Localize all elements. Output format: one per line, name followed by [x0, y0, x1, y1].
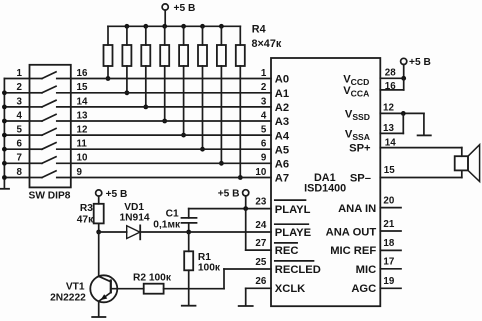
switch element 7 of SW DIP8: [30, 157, 71, 164]
wire: pin 23 row (C1 top node to DA1 PLAYL): [189, 208, 271, 210]
svg-text:100к: 100к: [198, 263, 221, 274]
svg-text:11: 11: [77, 139, 88, 150]
svg-text:A6: A6: [275, 159, 289, 171]
wire: bus row 8 (SW pin 9 to DA1 pin 10): [71, 177, 271, 179]
svg-text:10: 10: [77, 153, 88, 164]
junction dot at +5V / pin 23 node: [243, 206, 248, 211]
svg-text:47к: 47к: [77, 215, 94, 226]
+5V terminal (middle, feeds PLAYL/REC pull-ups): [243, 190, 249, 209]
svg-text:2: 2: [261, 82, 267, 93]
capacitor C1: [182, 218, 197, 232]
svg-text:4: 4: [261, 110, 267, 121]
svg-text:VD1: VD1: [124, 202, 144, 213]
resistor R4.2 (element 2 of 8x47k network R4): [122, 26, 131, 95]
pin label PLAYL with overline (DA1 pin 23): [275, 200, 311, 216]
svg-text:2: 2: [17, 82, 23, 93]
junction dot at VCC node: [401, 76, 406, 81]
svg-text:+5 В: +5 В: [106, 189, 128, 200]
svg-text:12: 12: [77, 125, 88, 136]
junction dots on top bus: [125, 24, 224, 29]
svg-text:A2: A2: [275, 102, 289, 114]
DIP switch SW DIP8 body: [30, 65, 71, 188]
svg-text:23: 23: [255, 196, 266, 207]
svg-text:28: 28: [385, 68, 396, 79]
wire: DA1 pin 28 VCCD to +5V: [380, 77, 403, 79]
resistor R4.8 (element 8 of 8x47k network R4): [236, 26, 245, 180]
wire: bus row 6 (SW pin 11 to DA1 pin 6): [71, 148, 271, 150]
svg-text:16: 16: [77, 68, 88, 79]
svg-text:6: 6: [17, 139, 23, 150]
svg-text:R2 100к: R2 100к: [133, 273, 172, 284]
svg-text:1N914: 1N914: [120, 213, 150, 224]
resistor R4.1 (element 1 of 8x47k network R4): [104, 26, 113, 81]
wire: bus row 7 (SW pin 10 to DA1 pin 9): [71, 162, 271, 164]
wire: DA1 pin 17 stub: [380, 268, 401, 270]
svg-text:A5: A5: [275, 144, 289, 156]
svg-text:ANA OUT: ANA OUT: [326, 226, 377, 238]
switch element 4 of SW DIP8: [30, 114, 71, 121]
wire: bus row 5 (SW pin 12 to DA1 pin 5): [71, 134, 271, 136]
svg-text:10: 10: [255, 167, 266, 178]
svg-text:13: 13: [77, 110, 88, 121]
svg-text:26: 26: [255, 276, 266, 287]
svg-text:A4: A4: [275, 130, 290, 142]
switch element 6 of SW DIP8: [30, 143, 71, 150]
pin label REC with overline (DA1 pin 27): [275, 243, 299, 257]
+5V terminal (top, feeds R4 network): [162, 4, 168, 26]
wire: SW DIP8 left pin 6 lead: [4, 148, 29, 150]
+5V terminal (right, VCC): [401, 58, 407, 78]
wire: DA1 XCLK (pin 26 row) to ground: [246, 288, 271, 305]
svg-text:R1: R1: [198, 252, 211, 263]
transistor VT1 (NPN): [90, 275, 143, 316]
svg-text:A1: A1: [275, 88, 289, 100]
svg-text:17: 17: [383, 257, 394, 268]
wire: top bus of R4 network: [108, 25, 240, 27]
svg-text:1: 1: [17, 68, 23, 79]
speaker (dynamic loudspeaker): [455, 145, 480, 182]
wire: node to VD1 anode: [99, 231, 127, 233]
svg-text:PLAYE: PLAYE: [275, 227, 312, 239]
switch element 8 of SW DIP8: [30, 171, 71, 178]
svg-text:A7: A7: [275, 173, 289, 185]
switch element 2 of SW DIP8: [30, 86, 71, 93]
wire: DA1 pin 21 stub: [380, 230, 401, 232]
svg-text:14: 14: [77, 96, 88, 107]
wire: +5V node down to pin 27 row: [245, 209, 247, 251]
svg-text:25: 25: [255, 257, 266, 268]
resistor R4.3 (element 3 of 8x47k network R4): [141, 26, 150, 109]
svg-text:27: 27: [255, 238, 266, 249]
wire: SW DIP8 left pin 1 lead: [4, 78, 29, 80]
wire: VT1 collector riser: [98, 232, 100, 276]
svg-text:20: 20: [383, 195, 394, 206]
svg-text:13: 13: [383, 123, 394, 134]
ground (VSS): [418, 134, 431, 136]
wire: C1 top lead riser: [188, 209, 190, 218]
wire: DA1 pin 15 SP- to speaker: [380, 170, 462, 177]
switch element 5 of SW DIP8: [30, 129, 71, 136]
diode VD1: [127, 225, 141, 239]
switch element 1 of SW DIP8: [30, 72, 71, 79]
wire: DA1 pin 16 VCCA riser to VCC node: [380, 78, 403, 90]
svg-text:1: 1: [261, 68, 267, 79]
resistor R4.5 (element 5 of 8x47k network R4): [179, 26, 188, 137]
junction dot at R3 / VD1 / VT1 collector node: [96, 230, 101, 235]
wire: DA1 pin 12 VSSD to ground: [380, 113, 424, 134]
svg-text:5: 5: [17, 125, 23, 136]
svg-text:C1: C1: [166, 209, 179, 220]
svg-text:15: 15: [384, 165, 395, 176]
svg-text:6: 6: [261, 139, 267, 150]
resistor R4.4 (element 4 of 8x47k network R4): [160, 26, 169, 123]
svg-text:A3: A3: [275, 116, 289, 128]
svg-text:RECLED: RECLED: [275, 264, 321, 276]
svg-text:15: 15: [77, 82, 88, 93]
wire: DA1 pin 13 VSSA riser to VSS node: [380, 113, 403, 133]
svg-text:R3: R3: [80, 203, 93, 214]
svg-text:0,1мк: 0,1мк: [153, 219, 181, 230]
op IC DA1 ISD1400 body: [271, 58, 380, 306]
svg-text:5: 5: [261, 125, 267, 136]
svg-text:VT1: VT1: [66, 281, 85, 292]
resistor R3: [94, 204, 104, 232]
wire: R2 riser to DA1 RECLED (pin 25 row): [224, 269, 271, 289]
wire: SW DIP8 left pin 5 lead: [4, 134, 29, 136]
svg-text:16: 16: [385, 81, 396, 92]
svg-text:SP+: SP+: [349, 142, 371, 154]
ground (below R1): [182, 305, 196, 307]
svg-text:AGC: AGC: [351, 283, 376, 295]
svg-text:PLAYL: PLAYL: [275, 204, 311, 216]
svg-text:21: 21: [383, 219, 394, 230]
wire: bus row 1 (SW pin 16 to DA1 pin 1): [71, 78, 271, 80]
ground (below SW DIP8 common bus): [1, 188, 9, 190]
svg-text:4: 4: [17, 110, 23, 121]
+5V terminal (above R3): [96, 190, 102, 204]
switch element 3 of SW DIP8: [30, 100, 71, 107]
wire: SW DIP8 left pin 2 lead: [4, 92, 29, 94]
wire: SW DIP8 left pin 4 lead: [4, 120, 29, 122]
svg-text:9: 9: [77, 167, 83, 178]
wire: SW DIP8 left pin 7 lead: [4, 162, 29, 164]
resistor R4.7 (element 7 of 8x47k network R4): [217, 26, 226, 165]
svg-text:MIC REF: MIC REF: [330, 245, 376, 257]
svg-text:XCLK: XCLK: [275, 283, 305, 295]
svg-text:REC: REC: [275, 245, 299, 257]
wire: bus row 4 (SW pin 13 to DA1 pin 4): [71, 120, 271, 122]
wire: VD1 cathode to DA1 PLAYE (pin 24 row): [140, 231, 271, 233]
svg-text:9: 9: [261, 153, 267, 164]
svg-text:SW DIP8: SW DIP8: [29, 191, 71, 202]
svg-text:A0: A0: [275, 74, 289, 86]
junction dots on SW left bus: [2, 90, 7, 180]
svg-text:8: 8: [17, 167, 23, 178]
svg-text:+5 В: +5 В: [409, 57, 431, 68]
wire: DA1 pin 20 stub: [380, 207, 401, 209]
resistor R2: [144, 284, 224, 294]
svg-text:18: 18: [383, 238, 394, 249]
junction dot at VSS node: [401, 111, 406, 116]
pin label RECLED with overline (DA1 pin 25): [275, 261, 321, 276]
wire: bus row 2 (SW pin 15 to DA1 pin 2): [71, 92, 271, 94]
resistor R4.6 (element 6 of 8x47k network R4): [198, 26, 207, 151]
wire: SW DIP8 left pin 8 lead: [4, 177, 29, 179]
svg-text:R4: R4: [252, 24, 266, 36]
svg-text:19: 19: [383, 276, 394, 287]
wire: bus row 3 (SW pin 14 to DA1 pin 3): [71, 106, 271, 108]
svg-text:+5 В: +5 В: [174, 3, 196, 14]
svg-text:SP–: SP–: [350, 173, 371, 185]
resistor R1: [184, 232, 193, 305]
junction dot at C1 / R1 / pin 24 node: [186, 230, 191, 235]
svg-text:+5 В: +5 В: [218, 189, 240, 200]
wire: DA1 pin 14 SP+ to speaker: [380, 148, 462, 157]
wire: SW DIP8 left pin 3 lead: [4, 106, 29, 108]
svg-text:12: 12: [383, 103, 394, 114]
wire: DA1 pin 18 stub: [380, 249, 401, 251]
ground (below VT1 emitter): [92, 316, 105, 318]
svg-text:7: 7: [17, 153, 23, 164]
svg-text:3: 3: [17, 96, 23, 107]
svg-text:ISD1400: ISD1400: [304, 183, 346, 195]
svg-text:MIC: MIC: [356, 264, 377, 276]
ground (below XCLK): [239, 305, 253, 307]
wire: DA1 pin 19 stub: [380, 287, 401, 289]
svg-text:24: 24: [255, 220, 266, 231]
svg-text:2N2222: 2N2222: [50, 293, 86, 304]
svg-text:8×47к: 8×47к: [252, 38, 282, 50]
svg-text:3: 3: [261, 96, 267, 107]
pin label PLAYE with overline (DA1 pin 24): [275, 224, 312, 239]
wire: pin 27 row (REC): [246, 249, 271, 251]
svg-text:ANA IN: ANA IN: [338, 203, 376, 215]
wire: common bus on left of SW DIP8: [3, 79, 5, 189]
